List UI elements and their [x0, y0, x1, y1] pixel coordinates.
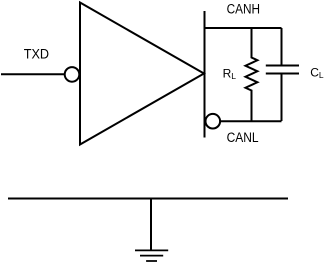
resistor RL: [246, 28, 258, 121]
wire ground bus: [8, 198, 288, 200]
svg-text:CL: CL: [310, 66, 324, 80]
driver U1 triangle: [80, 3, 204, 145]
inverting output bubble CANL: [206, 114, 221, 129]
svg-text:CANH: CANH: [227, 1, 260, 16]
ground symbol: [135, 250, 168, 261]
capacitor CL top lead: [281, 28, 283, 65]
svg-text:TXD: TXD: [24, 46, 50, 61]
wire TXD input: [1, 73, 64, 75]
svg-text:RL: RL: [223, 67, 237, 81]
capacitor CL bottom lead: [281, 74, 283, 121]
wire CANH horizontal: [205, 27, 282, 29]
wire vertical bus CANH-CANL: [204, 11, 206, 138]
wire CANL horizontal: [220, 120, 282, 122]
inverter input bubble: [65, 67, 80, 82]
wire ground stem: [150, 199, 152, 251]
svg-text:CANL: CANL: [227, 130, 259, 145]
capacitor CL plates: [266, 66, 299, 74]
